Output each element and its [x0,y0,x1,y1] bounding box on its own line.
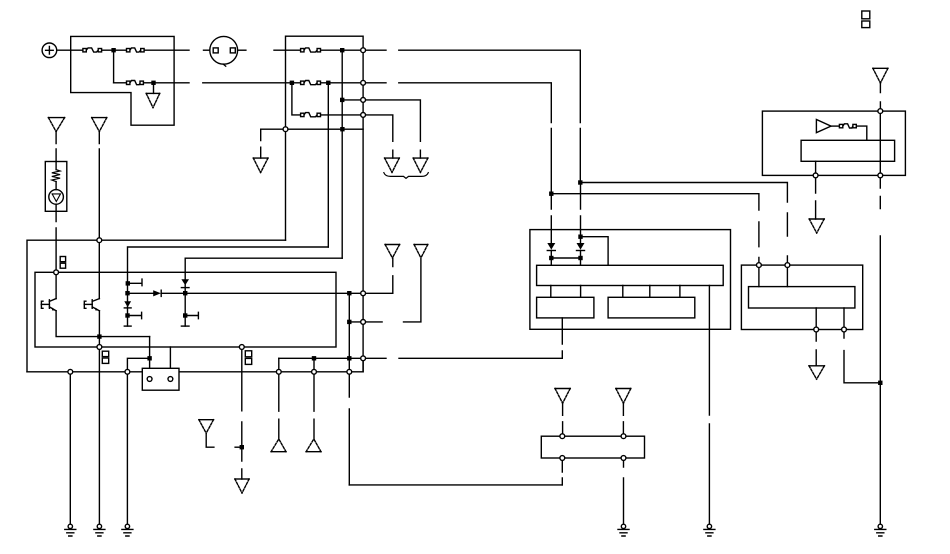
wire ECU pin 241 dashed down to triangle TL [241,347,243,479]
connector circle row372 at x314 [312,369,317,374]
wire F6 to box edge pin [321,114,364,116]
bottom center box [541,436,644,458]
wire x551 dashed into U2 diode D4 [550,194,552,243]
wire U4 pin dashed down to triangle TG [815,178,817,219]
wire battery to fuse F1 [57,49,83,51]
connector circle row372 at x127 [125,369,130,374]
lamp assembly box [45,162,67,212]
wire U2 branch y236 corner down to bar [581,237,609,266]
connector circle row372 at x349 [347,369,352,374]
diode D4 in U2 [547,243,555,251]
junction dot fusebox2 bottom edge [340,127,344,131]
wire from fusebox2 bottom-left pin to triangle TN [261,129,286,158]
U3 pin circle left [757,263,762,268]
relay box pin circle right [168,377,173,382]
bottom box pin circle bottom left [560,456,565,461]
triangle TE [385,245,400,258]
wire right rail through U4 [879,111,881,175]
U4 bottom pin circle left [813,173,818,178]
wire U2 bar stubs to sub boxes [551,286,680,298]
connector pin circle fusebox2 right row3 [361,98,366,103]
diode D3 col2 [181,279,189,287]
fuse box 2 outline [286,36,364,129]
triangle TM option connector [199,420,214,448]
ECU pin circle top [54,270,59,275]
wire x278 down to up-triangle UA [278,358,280,439]
triangle TG below U4 [809,219,824,233]
wire row y240 with left corner down [27,240,286,372]
bottom box pin circle bottom right [621,456,626,461]
junction dot row358 x314 [312,356,316,360]
connector pin circle on row240 [97,238,102,243]
wire U2 boxA drop to row358 corner [561,318,563,358]
U3 bottom pin circle left [814,327,819,332]
wire vertical from row1 junction down to row at y257 [341,50,343,258]
connector pin circle fusebox2 bottom left [283,127,288,132]
wire row y293 diode to ECU edge to corner with triangle TE [161,258,393,293]
wire B from x551 junction to corner down to U3 pin [551,194,759,265]
wire A from x580 junction to corner down to U3 pin [580,183,787,266]
junction dot emitter rail [97,334,101,338]
junction dot wireA x580 [578,180,582,184]
junction dot row1 fusebox1 [111,48,115,52]
triangle TB ECU feed [92,118,107,132]
wire row y358 left piece with corner down to row371 [127,358,149,372]
wire F7 corner down into U4 inner rect [856,126,867,140]
connector marker squares below ECU left [102,351,108,363]
wire row4 pin to corner down toward triangle TC [363,115,393,158]
wire row y247 to ECU diode column1 [128,247,329,326]
fuse box 1 outline [71,36,174,125]
connector marker squares below ECU mid [245,351,251,365]
triangle TD [413,158,428,172]
transistor T1 [41,299,56,311]
battery positive terminal [42,43,57,58]
junction dot fusebox2 row2 right [326,81,330,85]
U2 sub box A [537,297,594,318]
bottom box pin circle top left [560,434,565,439]
bulb symbol [49,190,64,205]
U3 pin circle right [785,263,790,268]
connector pin circle fusebox2 right row1 [361,48,366,53]
junction dot col2 row293 [183,291,187,295]
ground G5 [704,524,715,536]
junction dot wireB x551 [549,192,553,196]
triangle TJ [555,389,570,404]
junction dot fusebox2 row3 [340,98,344,102]
wire row y257 to ECU diode column2 [185,258,342,326]
junction dot row293 x349 [347,291,351,295]
wire ground3 drop [126,372,128,524]
wire inside lamp box to coil [55,162,57,170]
connector circle row372 at x278 [276,369,281,374]
wire ECU emitter rail corner down to relay junction [149,337,151,359]
ground G3 [122,524,133,536]
ECU pin circle bottom mid [239,345,244,350]
BOXES-LAYER [35,36,905,458]
junction dot right rail x880 [878,381,882,385]
junction dot row358 x349 [347,356,351,360]
wire triangle TJ to bottom box pin [562,403,564,436]
connector circle C1 [210,36,238,66]
U3 bottom pin circle right [842,327,847,332]
right unit U3 outer box [741,265,862,329]
wire diode junction link y258 [551,257,580,259]
wire row3 junction to pin to corner down toward triangle TD [342,100,420,158]
U4 bottom pin circle right [878,173,883,178]
junction dot x241 [240,445,244,449]
wire junction drop to row2 [113,50,115,83]
connector circle row372 at x70 [68,369,73,374]
wire F3 to junction G [143,82,153,84]
junction dot col1 row293 [125,291,129,295]
wire ECU emitter rail T1 [56,311,150,337]
ground G2 [94,524,105,536]
wire coil to bulb [55,182,57,190]
top right unit U4 outer box [762,111,905,175]
wire row y372 right segment with corner up [179,358,363,372]
junction dot relay feed [147,356,151,360]
underline bracket below TC TD [384,173,429,179]
triangle TI below U3 [809,366,824,379]
junction dot D5 cathode [578,256,582,260]
fuse F1 [83,48,102,52]
wire row y293 inside ECU to series diode [128,292,154,294]
wire vertical from row2 junction down to row at y247 [327,83,329,247]
wire row1 to corner down x580 [399,50,581,182]
junction dot row322 x349 [347,320,351,324]
wire x314 down to up-triangle UB [313,358,315,439]
wire row2 pin to inline gap [363,82,386,84]
wire row2 to corner down x551 [399,83,552,194]
bottom box pin circle top right [621,434,626,439]
wire junction G down to ground triangle [153,83,155,94]
junction dot fusebox2 row2 left [290,81,294,85]
ground G1 [65,524,76,536]
WIRES-LAYER [27,50,880,524]
wire row2 junction drop to fuse F6 [292,83,301,115]
col1 end cap [124,325,131,327]
wire row y372 left segment [27,371,142,373]
wire bottom box pin dashed to row485 [561,460,563,485]
wire junction G out of box to gap [154,82,190,84]
wire lamp feed upper segment [55,132,57,162]
connector pin circle fusebox2 right row4 [361,113,366,118]
wire fuse box2 left edge extension down to row240 corner [285,129,287,240]
junction dot row2 fusebox1 [151,81,155,85]
center unit U2 outer box [530,230,731,330]
U4 top pin circle [878,109,883,114]
fuse F2 [127,48,145,52]
triangle TH top right [873,68,888,83]
wire row2 to fuse F3 [114,82,127,84]
triangle TN [253,158,268,173]
wire bulb to below lamp box with dash gap [55,204,57,272]
wire row y485 [349,484,562,486]
wire right rail dashed below U4 down to ground6 [879,178,881,524]
connector marker squares near lamp wire [60,257,65,269]
transistor T2 [84,299,99,311]
wire triangle TB feed down to ECU transistor T2 collector [98,132,100,299]
amplifier triangle in U4 [816,120,831,133]
wire bottom box pin dashed to ground4 [623,460,625,524]
internal terminal tick col2 [183,312,198,318]
wire U3 inner rect to bottom pins [816,308,844,330]
wire relay junction down into relay box pin [149,358,151,376]
fuse F5 [301,81,321,85]
wire U4 amp to fuse F7 [831,125,839,127]
ECU control unit box [35,272,336,347]
connector circle row322 x363 [361,320,366,325]
connector pin circle fusebox2 right row2 [361,80,366,85]
wire row1 resume to fuse F4 [274,49,301,51]
wire x580 dashed into U2 diode D5 [580,183,582,244]
wire U3 pins to inner rect [759,265,788,287]
wire D4 cathode to junction to bar [550,251,552,266]
wire stub tick at junction x241 [235,446,242,448]
ground G4 [618,524,629,536]
junction dot D4 cathode [549,256,553,260]
relay box [142,368,179,390]
wire from ECU bottom edge down into relay box pin [169,347,171,377]
wire row1 pin to inline gap [363,49,386,51]
wire x349 from row293 junction down with dash to row485 corner [348,293,350,485]
fuse F3 [127,81,144,85]
U2 long bar [537,265,724,285]
junction dot U2 branch [578,235,582,239]
wire fuse box2 right edge extension down to row371 corner [362,129,364,372]
U4 inner rect [801,140,895,161]
wire F1 to junction to F2 [102,49,127,51]
fuse F4 [301,48,321,52]
series diode D2 on row293 [153,290,161,296]
relay box pin circle left [147,377,152,382]
up triangle UB [306,439,321,452]
wire triangle TH apex dashed to U4 top pin [879,83,881,111]
wire U2 rail down to ground5 [708,286,710,525]
diode D5 in U2 [577,243,585,251]
wire F4 to junction to box edge pin [321,49,364,51]
triangle TL [235,479,249,493]
wire U4 inner rect stub to bottom pin [815,161,817,175]
wire gap to connector circle left [204,49,210,51]
wire F2 out of fuse box to gap [144,49,189,51]
wire ground1 drop [69,372,71,524]
wire connector circle right to gap [238,49,246,51]
triangle TF [414,245,428,258]
U3 inner rect [749,287,855,308]
wire row y358 center segment with inline gap [279,357,563,359]
U2 sub box B [608,297,695,318]
junction dot fusebox2 row1 [340,48,344,52]
connector circle row293 x363 [361,291,366,296]
internal terminal tick 1 col1 [126,279,142,286]
fuse F7 in U4 [839,124,856,128]
triangle TA lamp feed [48,118,64,132]
resistor coil in lamp assembly [52,170,60,182]
triangle TK [616,389,631,404]
fuse F6 [301,113,321,117]
ground G6 [875,524,886,536]
connector marker squares top right [862,11,870,28]
triangle TC [385,158,400,172]
ground triangle under fusebox1 [146,93,160,107]
wire F5 to junction to box edge pin [321,82,364,84]
wire U3 pin dashed to corner to junction on right rail [844,332,880,383]
wire ECU T2 emitter down through pin to ground2 [98,311,100,524]
col2 end cap [181,325,189,327]
wire row2 resume to fuse F5 [203,82,301,84]
internal terminal tick 2 col1 [125,312,141,318]
wire U3 pin dashed to triangle TI [815,332,817,366]
connector circle row358 x363 [361,356,366,361]
wire triangle TK to bottom box pin [622,403,624,436]
ECU pin circle bottom left [97,345,102,350]
wire row y322 from triangle TF corner leftward with gap [349,258,421,322]
up triangle UA [271,439,286,452]
wire D5 cathode to bar [580,251,582,266]
wire ECU T1 collector from pin [55,272,57,298]
diode D1 col1 [124,301,131,308]
